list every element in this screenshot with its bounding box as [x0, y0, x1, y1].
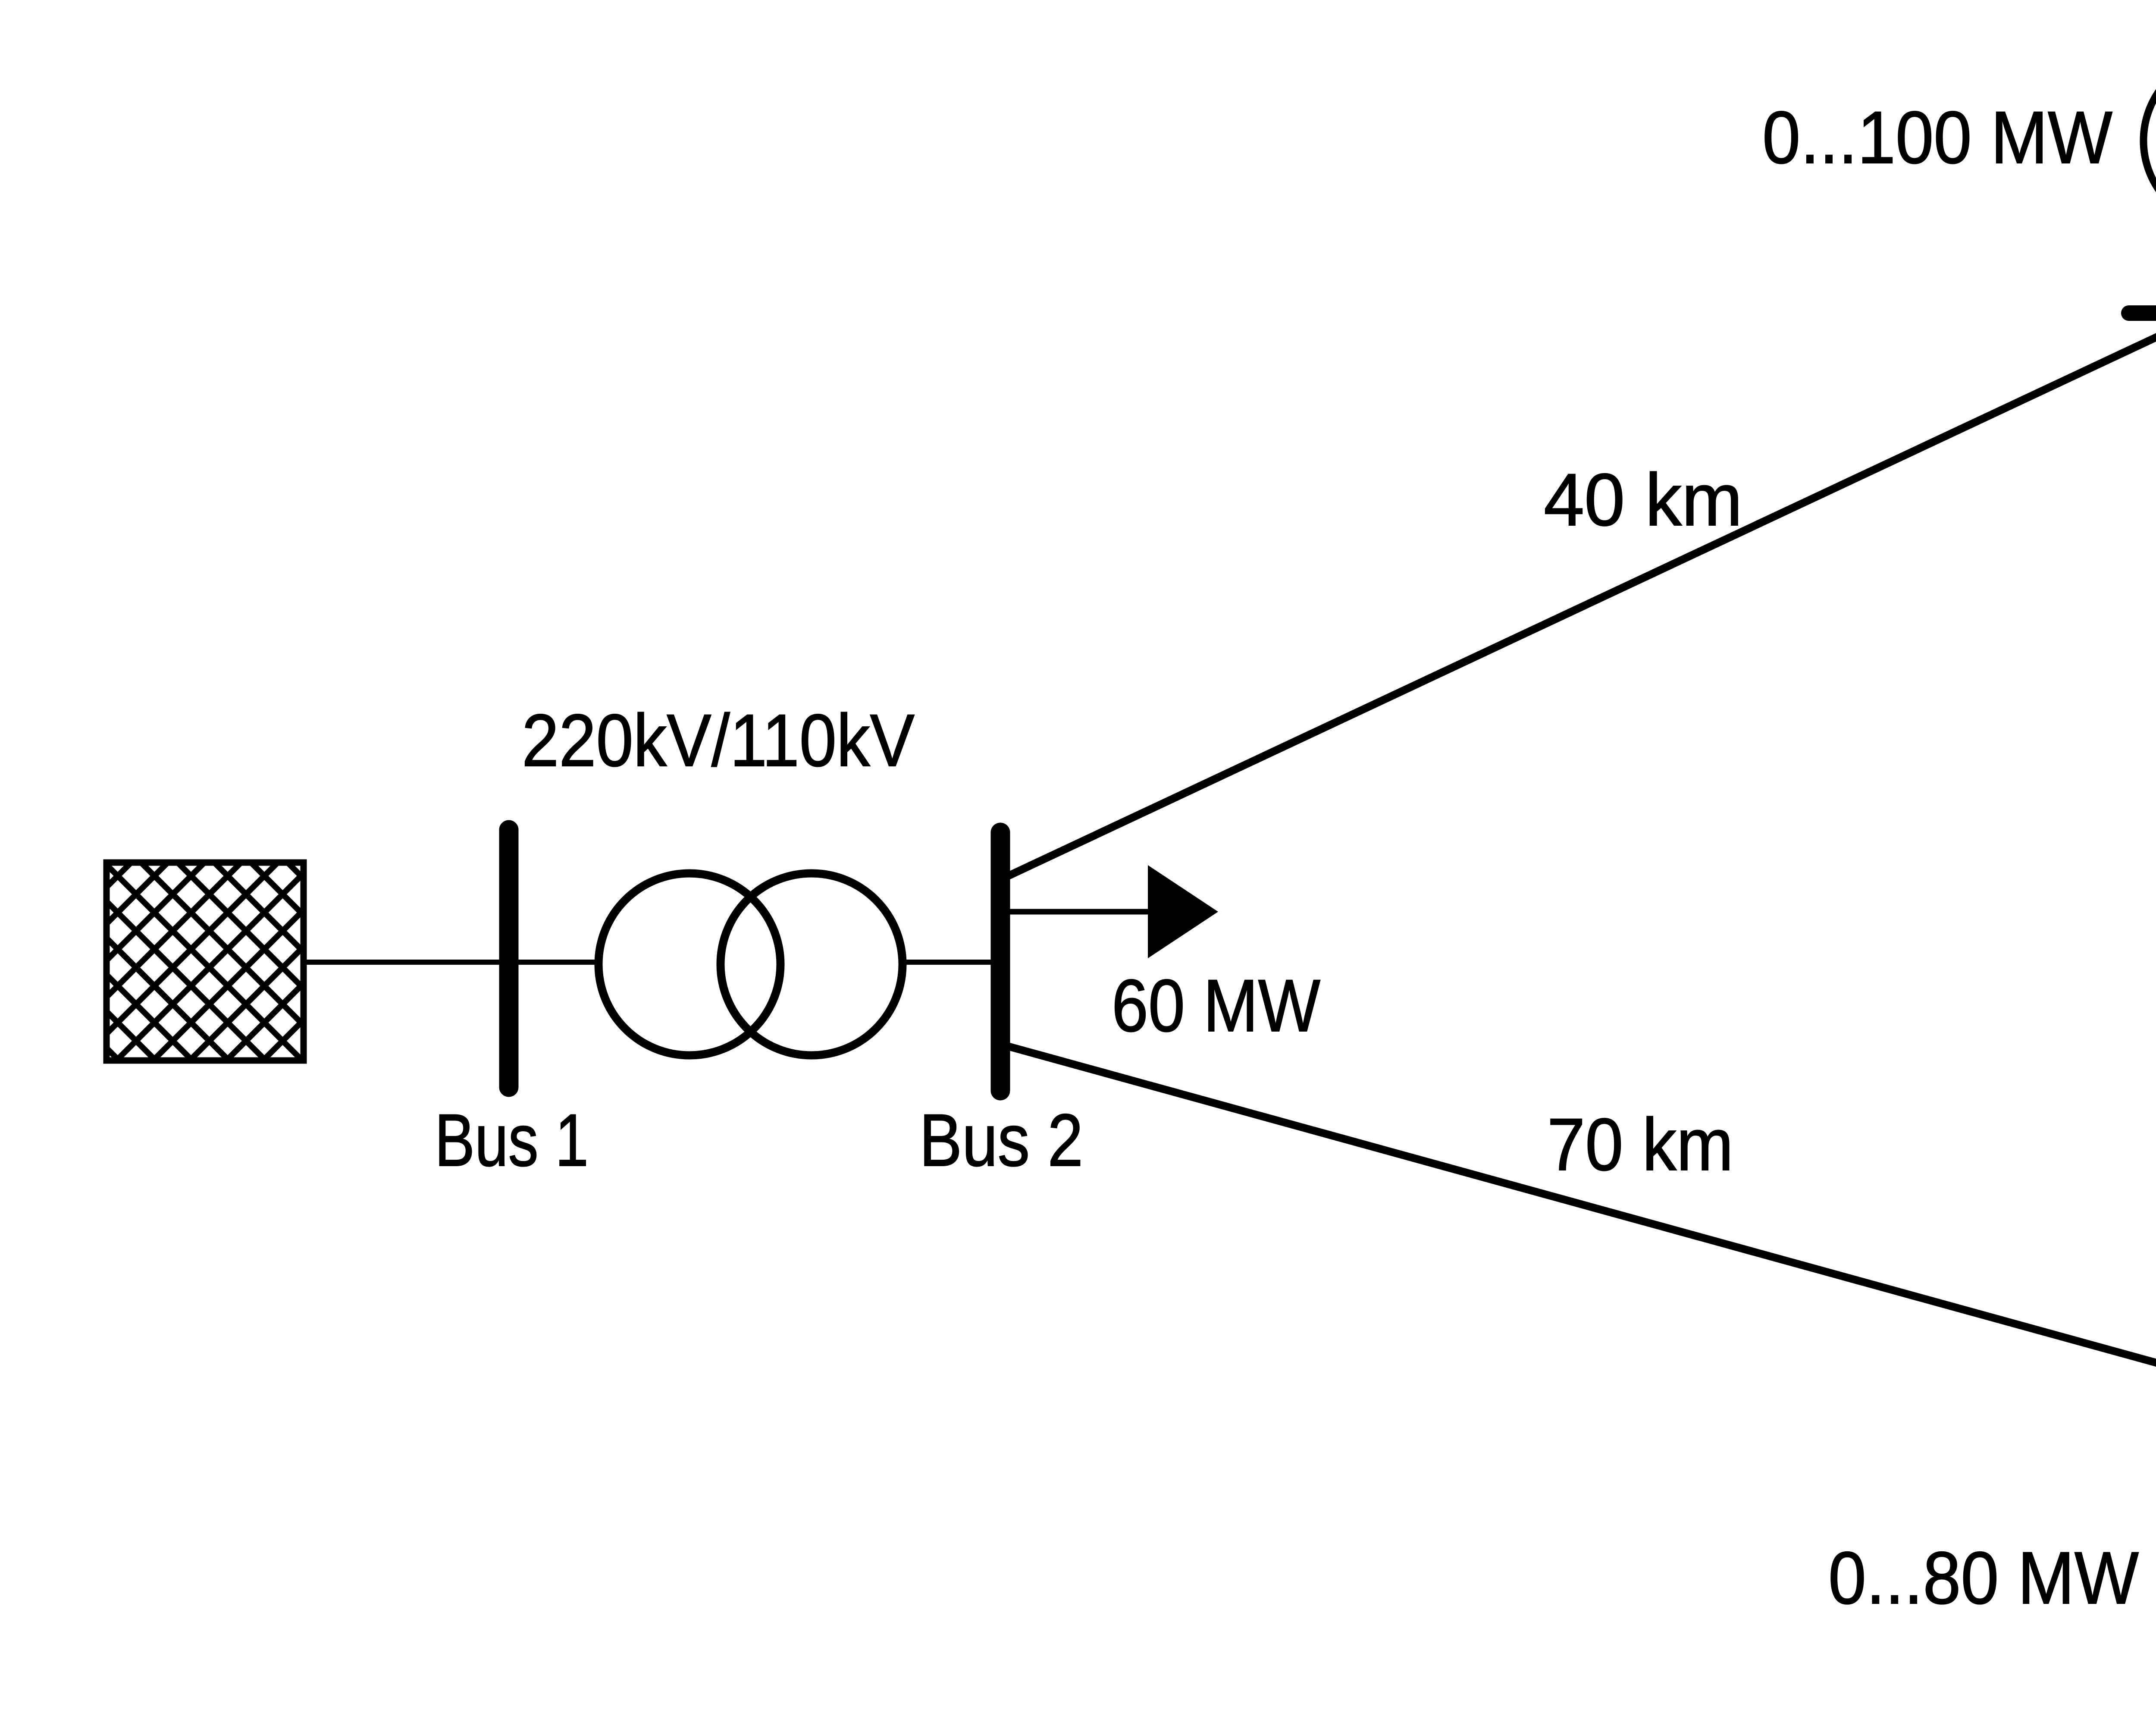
svg-text:Bus 1: Bus 1 [435, 1099, 589, 1182]
svg-text:70 km: 70 km [1547, 1103, 1733, 1186]
svg-text:40 km: 40 km [1544, 458, 1742, 541]
line 40 km Bus2 to Bus4 [1006, 319, 2156, 877]
svg-text:220kV/110kV: 220kV/110kV [522, 699, 915, 782]
wire W1 grid to Bus 1 [304, 960, 509, 965]
svg-text:0...100 MW: 0...100 MW [1762, 96, 2112, 179]
wire W2 Bus 1 to transformer T1 [509, 960, 599, 965]
bus Bus 2 [991, 832, 1010, 1091]
load arrow 60 MW at Bus 2 [1007, 865, 1218, 958]
bus Bus 1 [499, 830, 519, 1087]
wire W3 transformer to Bus 2 [903, 960, 1000, 965]
svg-text:60 MW: 60 MW [1112, 964, 1320, 1047]
generator G1 [2143, 54, 2156, 227]
svg-text:0...80 MW: 0...80 MW [1828, 1537, 2139, 1619]
external grid S1 [107, 863, 304, 1061]
bus Bus 4 [2129, 305, 2156, 321]
svg-text:Bus 2: Bus 2 [919, 1099, 1083, 1182]
transformer T1 [599, 873, 903, 1055]
line 70 km Bus2 to Bus3 [1006, 1046, 2156, 1385]
